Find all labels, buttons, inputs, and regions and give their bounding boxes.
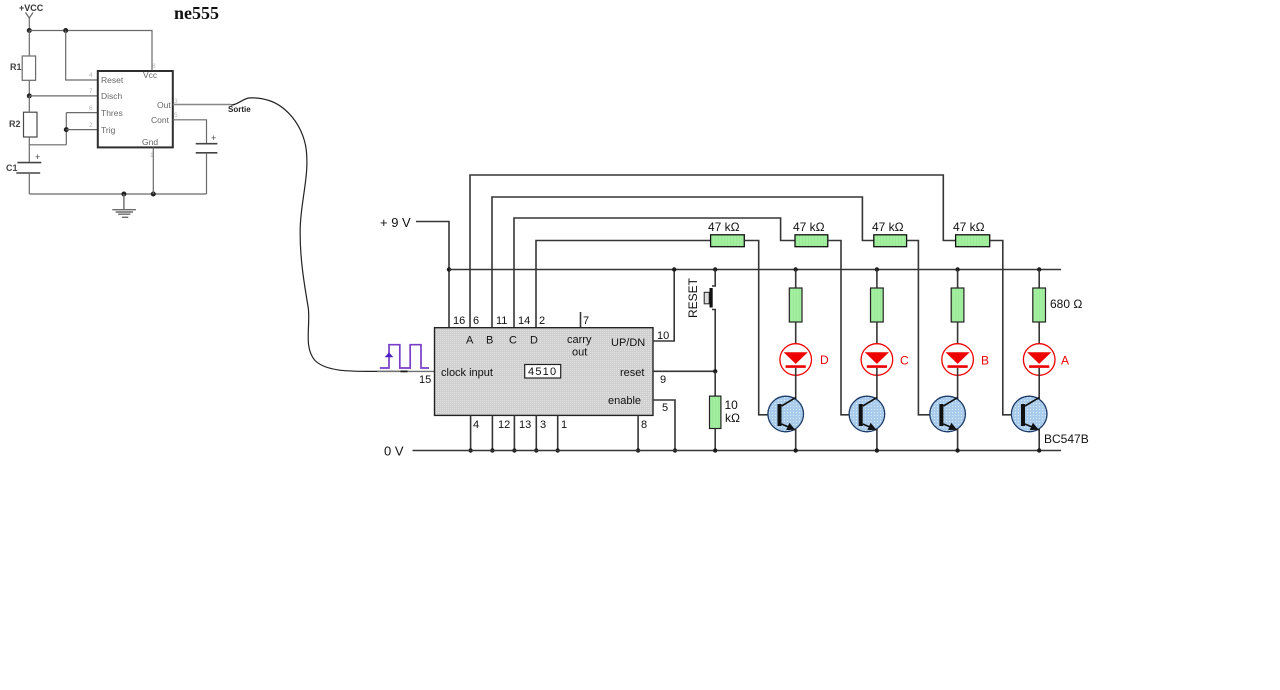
- svg-text:Thres: Thres: [101, 108, 123, 118]
- node reset branch junction: [63, 28, 68, 33]
- svg-text:+VCC: +VCC: [19, 3, 44, 13]
- 555 pin numbers (faint): [89, 63, 178, 159]
- svg-text:15: 15: [419, 374, 431, 386]
- svg-text:+: +: [35, 152, 40, 162]
- wire Q-B emitter to rail: [957, 429, 959, 451]
- transistor Q-A: [1011, 396, 1047, 432]
- wire R2 node down to C1: [28, 145, 30, 163]
- LED D: [780, 344, 812, 376]
- wire reset pin to RESET node: [653, 370, 715, 372]
- resistor R680 C: [871, 288, 884, 322]
- node VCC junction: [27, 28, 32, 33]
- svg-text:reset: reset: [620, 367, 644, 379]
- wire bus to R680 D: [795, 270, 797, 289]
- svg-text:R1: R1: [10, 62, 22, 72]
- svg-text:out: out: [572, 347, 587, 359]
- wire C1 to ground rail: [28, 173, 30, 194]
- resistor R680 A: [1033, 288, 1046, 322]
- svg-text:C: C: [900, 354, 909, 368]
- wire IC bottom pin 12: [491, 415, 493, 450]
- svg-text:0 V: 0 V: [384, 444, 404, 459]
- svg-text:7: 7: [583, 315, 589, 327]
- svg-text:B: B: [981, 354, 989, 368]
- node bus junction A: [1037, 267, 1041, 271]
- LED C: [861, 344, 893, 376]
- wire Q-D emitter to rail: [795, 429, 797, 451]
- svg-text:Reset: Reset: [101, 75, 124, 85]
- wire LED D to Q-D collector: [795, 368, 797, 399]
- op-amp U1 555 box: [98, 71, 173, 147]
- resistor R1: [22, 56, 35, 80]
- wire +9V feed: [416, 222, 449, 328]
- svg-text:12: 12: [498, 419, 510, 431]
- wire Disch: [29, 95, 98, 97]
- svg-text:Vcc: Vcc: [143, 70, 158, 80]
- wire LED B to Q-B collector: [957, 368, 959, 399]
- wire R680 A to LED A: [1038, 322, 1040, 353]
- svg-text:8: 8: [641, 419, 647, 431]
- svg-text:6: 6: [473, 315, 479, 327]
- wire 0V rail: [413, 450, 1062, 452]
- wire UP/DN to bus: [653, 270, 674, 342]
- svg-text:11: 11: [496, 315, 507, 327]
- transistor Q-C: [849, 396, 885, 432]
- resistor R5 10k: [710, 396, 721, 428]
- wire +9V bus: [449, 269, 1061, 271]
- svg-text:A: A: [466, 335, 474, 347]
- svg-text:47 kΩ: 47 kΩ: [953, 220, 985, 234]
- wire Cont to C2: [173, 120, 207, 144]
- wire bus to R680 B: [957, 270, 959, 289]
- wire reset branch: [66, 31, 98, 81]
- svg-text:Sortie: Sortie: [228, 105, 251, 114]
- resistor R47k D: [711, 235, 745, 247]
- svg-text:4: 4: [89, 72, 93, 79]
- wire IC bottom pin 13: [513, 415, 515, 450]
- wire Q-A emitter to rail: [1038, 429, 1040, 451]
- svg-text:8: 8: [152, 63, 156, 70]
- wire R2 bottom to Trig riser: [29, 137, 66, 145]
- wire R1 to Disch node: [28, 80, 30, 96]
- wire output D (pin2) to R-D: [536, 241, 711, 328]
- node Disch junction: [27, 93, 32, 98]
- wire Trig: [66, 129, 98, 131]
- svg-text:Out: Out: [157, 100, 171, 110]
- svg-text:+: +: [211, 133, 216, 143]
- svg-text:4: 4: [473, 419, 479, 431]
- pushbutton RESET: [710, 288, 713, 308]
- wire enable to 0V: [653, 400, 675, 451]
- svg-text:C: C: [509, 335, 517, 347]
- svg-text:7: 7: [89, 88, 93, 95]
- svg-text:Disch: Disch: [101, 91, 123, 101]
- wire Out pin: [173, 104, 231, 106]
- svg-text:kΩ: kΩ: [725, 411, 740, 425]
- wire reset node to R 10k: [714, 371, 716, 396]
- svg-text:C1: C1: [6, 163, 18, 173]
- svg-text:10: 10: [725, 398, 739, 412]
- wire output A (pin6) to R-A: [470, 175, 956, 328]
- svg-text:BC547B: BC547B: [1044, 432, 1089, 446]
- wire output B (pin11) to R-B: [492, 197, 874, 328]
- wire bus to R680 C: [876, 270, 878, 289]
- wire Thres riser: [66, 113, 98, 145]
- svg-text:2: 2: [89, 122, 93, 129]
- svg-text:ne555: ne555: [174, 3, 219, 23]
- wire button to reset node: [712, 310, 715, 372]
- clock arrow: [385, 352, 394, 357]
- svg-text:680 Ω: 680 Ω: [1050, 297, 1082, 311]
- wire pin7 stub: [580, 312, 582, 328]
- wire R680 C to LED C: [876, 322, 878, 353]
- node gnd junction 2: [151, 192, 156, 197]
- wire VCC down to node: [28, 18, 30, 31]
- wire ground rail: [29, 193, 206, 195]
- node bus junction D: [794, 267, 798, 271]
- svg-text:R2: R2: [9, 119, 21, 129]
- wire IC bottom pin 4: [470, 415, 472, 450]
- wire 555 Gnd pin: [152, 147, 154, 194]
- svg-text:14: 14: [518, 315, 530, 327]
- node UP/DN bus junction: [672, 267, 676, 271]
- capacitor C1: [16, 163, 41, 173]
- svg-text:RESET: RESET: [686, 277, 700, 318]
- svg-text:A: A: [1061, 354, 1069, 368]
- transistor Q-B: [930, 396, 966, 432]
- wire R47k D to base Q-D: [744, 241, 777, 415]
- svg-text:Gnd: Gnd: [142, 137, 158, 147]
- wire top rail to 555 Vcc: [29, 31, 152, 72]
- svg-text:16: 16: [453, 315, 465, 327]
- svg-text:Cont: Cont: [151, 115, 170, 125]
- node reset junction: [713, 369, 717, 373]
- svg-text:D: D: [530, 335, 538, 347]
- wire Q-C emitter to rail: [876, 429, 878, 451]
- node bus junction B: [955, 267, 959, 271]
- wire 10k to rail: [714, 429, 716, 451]
- svg-text:2: 2: [539, 315, 545, 327]
- wire R47k B to base Q-B: [907, 241, 940, 415]
- wire R47k A to base Q-A: [990, 241, 1021, 415]
- svg-text:47 kΩ: 47 kΩ: [872, 220, 904, 234]
- svg-text:13: 13: [519, 419, 531, 431]
- wire Disch node to R2: [28, 96, 30, 112]
- node bus junction C: [875, 267, 879, 271]
- svg-text:UP/DN: UP/DN: [611, 337, 645, 349]
- ground symbol: [112, 194, 136, 217]
- wire IC bottom pin 8: [637, 415, 639, 450]
- clock waveform symbol: [380, 345, 429, 368]
- wire IC bottom pin 3: [535, 415, 537, 450]
- IC U2 4510 body: [435, 328, 654, 416]
- svg-text:3: 3: [540, 419, 546, 431]
- wire bus to R680 A: [1038, 270, 1040, 289]
- svg-text:+ 9 V: + 9 V: [380, 215, 411, 230]
- svg-text:6: 6: [89, 105, 93, 112]
- wire R680 D to LED D: [795, 322, 797, 353]
- node Trig junction: [64, 127, 69, 132]
- wire VCC node to R1: [28, 31, 30, 57]
- LED B: [942, 344, 974, 376]
- resistor R680 B: [951, 288, 964, 322]
- wire LED A to Q-A collector: [1038, 368, 1040, 399]
- VCC terminal chevron: [26, 13, 34, 19]
- svg-text:5: 5: [174, 112, 178, 119]
- resistor R47k B: [874, 235, 907, 247]
- resistor R2: [24, 112, 38, 137]
- wire IC bottom pin 1: [557, 415, 559, 450]
- svg-text:9: 9: [660, 374, 666, 386]
- wire bus to button: [712, 270, 715, 287]
- svg-text:5: 5: [662, 402, 668, 414]
- capacitor C2: [196, 144, 218, 153]
- wire R680 B to LED B: [957, 322, 959, 353]
- svg-text:47 kΩ: 47 kΩ: [793, 220, 825, 234]
- svg-text:enable: enable: [608, 395, 641, 407]
- LED A: [1023, 344, 1055, 376]
- node enable rail junction: [673, 448, 677, 452]
- svg-text:carry: carry: [567, 334, 592, 346]
- wire R47k C to base Q-C: [828, 241, 859, 415]
- node button bus junction: [713, 267, 717, 271]
- wire LED C to Q-C collector: [876, 368, 878, 399]
- resistor R47k A: [956, 235, 990, 247]
- svg-text:B: B: [486, 335, 493, 347]
- node gnd junction 1: [121, 192, 126, 197]
- svg-text:1: 1: [561, 419, 567, 431]
- svg-text:Trig: Trig: [101, 125, 116, 135]
- node +9V bus start: [447, 267, 451, 271]
- 4510 value box: [525, 365, 561, 379]
- resistor R47k C: [795, 235, 828, 247]
- resistor R680 D: [789, 288, 802, 322]
- transistor Q-D: [768, 396, 804, 432]
- wire squiggle from 555 Out to 4510 clock: [231, 98, 404, 372]
- svg-text:4510: 4510: [528, 366, 557, 378]
- svg-text:D: D: [820, 353, 829, 367]
- wire output C (pin14) to R-C: [514, 218, 795, 328]
- svg-text:47 kΩ: 47 kΩ: [708, 220, 740, 234]
- svg-text:clock input: clock input: [441, 367, 493, 379]
- wire C2 to ground rail: [206, 153, 208, 194]
